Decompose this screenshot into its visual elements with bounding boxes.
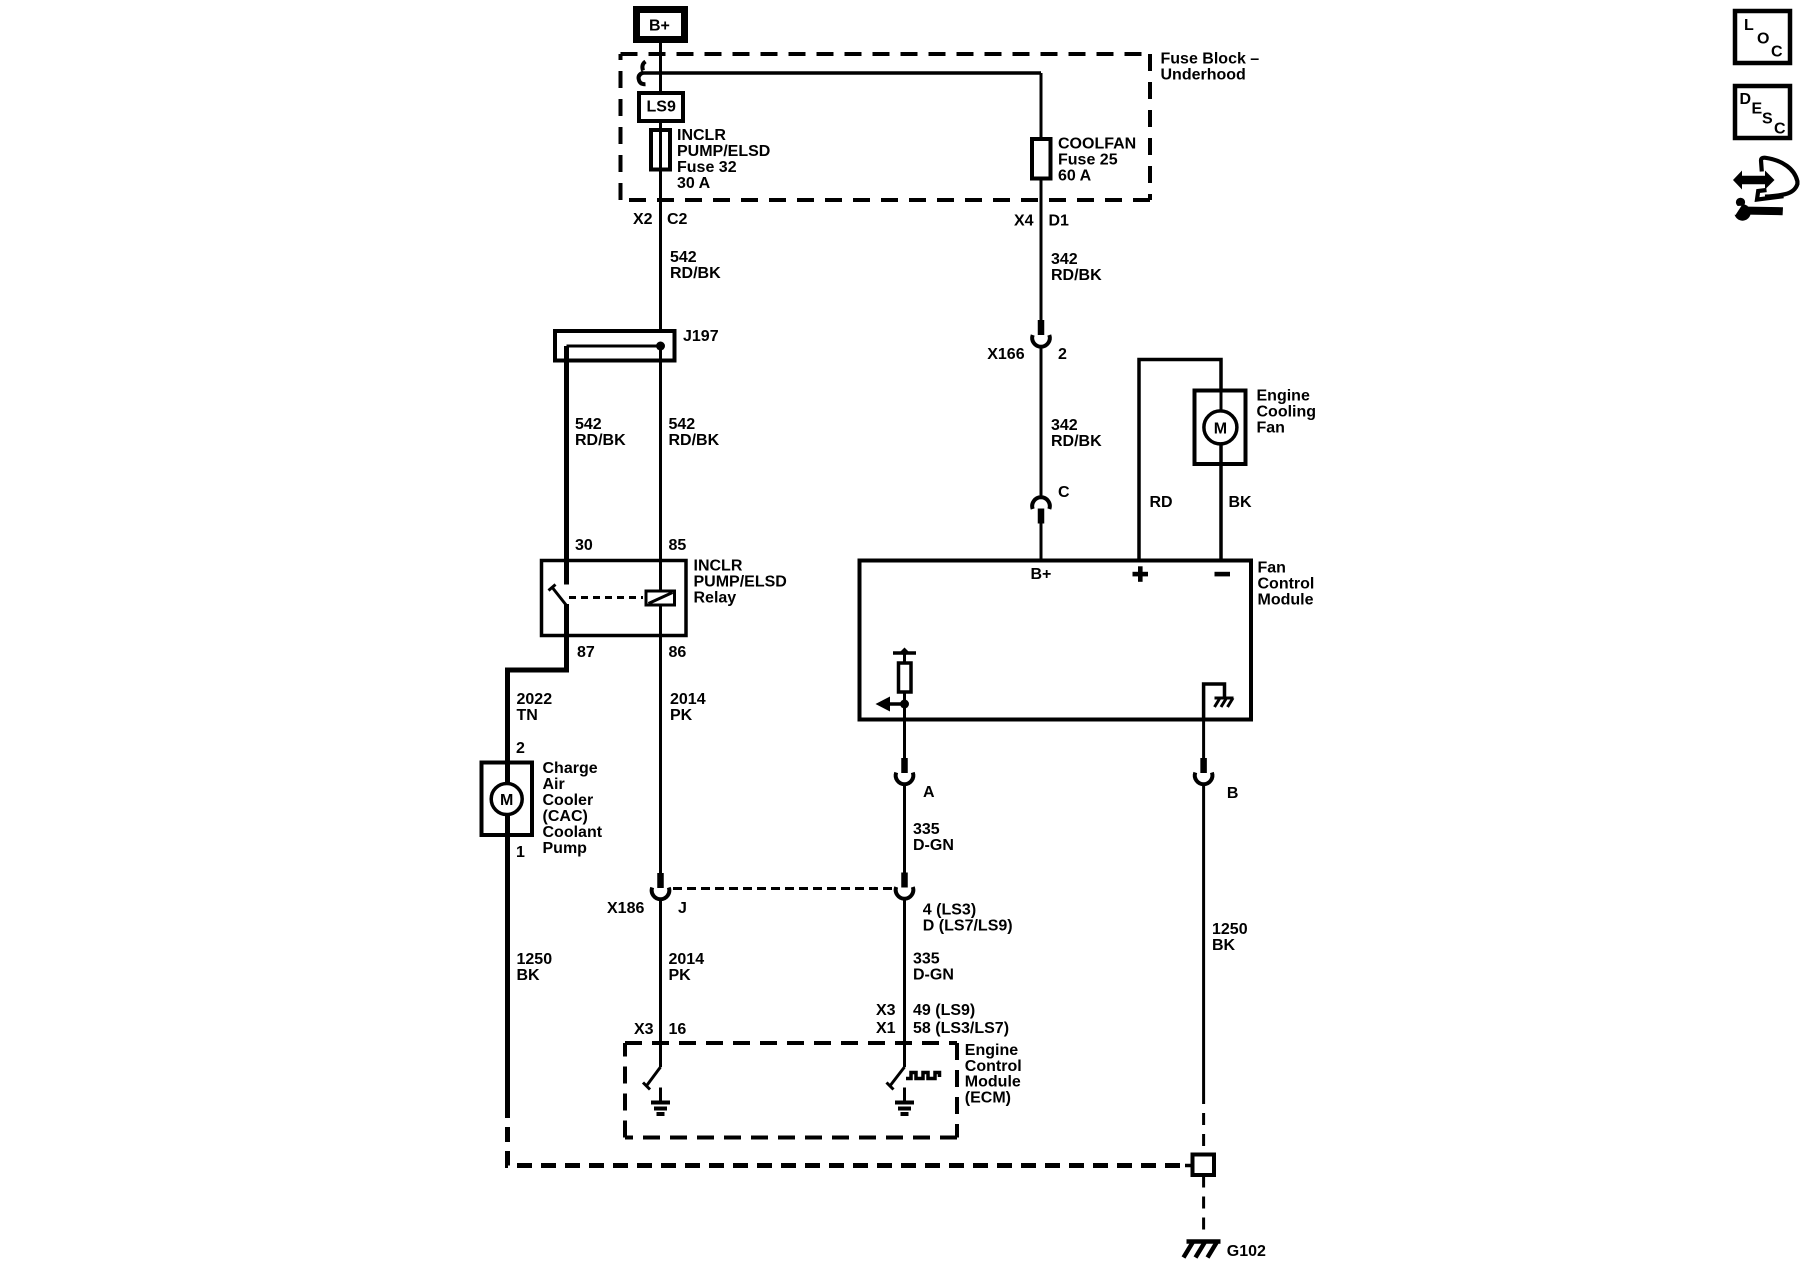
svg-text:Engine: Engine [1257,388,1310,405]
svg-text:Cooling: Cooling [1257,404,1317,421]
wrench [1734,204,1750,220]
svg-text:2: 2 [516,740,525,757]
svg-text:(ECM): (ECM) [965,1090,1011,1107]
svg-text:4 (LS3): 4 (LS3) [923,902,976,919]
LS9 engine code box [639,93,683,121]
dotted connector tie line X186 [673,887,892,890]
in-line connector X186 pin J [657,873,664,888]
svg-text:M: M [500,792,513,809]
in-line connector X166 pin 2 [1038,320,1045,335]
svg-text:BK: BK [1212,937,1236,954]
svg-text:BK: BK [1229,494,1253,511]
svg-text:S: S [1762,111,1773,128]
double-arrow and wrench icon [1733,171,1775,190]
svg-text:Fuse 25: Fuse 25 [1058,152,1118,169]
svg-text:Air: Air [543,776,565,793]
svg-text:C: C [1771,44,1783,61]
splice curl inside fuse block [642,62,645,71]
relay coil [646,591,675,605]
svg-text:87: 87 [577,644,595,661]
svg-text:Underhood: Underhood [1161,67,1246,84]
svg-text:Relay: Relay [694,590,737,607]
svg-text:J: J [678,900,687,917]
connector A below module [903,722,906,759]
svg-text:Module: Module [1258,592,1314,609]
in-line connector C at fan control module [1032,497,1050,509]
dashed wire square to G102 [1202,1176,1205,1239]
Engine Control Module (ECM) dashed box [625,1041,957,1045]
wire horizontal branch to COOLFAN fuse [641,71,1041,75]
svg-text:PK: PK [669,967,692,984]
svg-text:1: 1 [516,844,525,861]
svg-text:542: 542 [575,416,602,433]
wire B+ to fuse block [659,43,662,91]
wire J197 through to relay 85 [659,346,662,560]
svg-text:D-GN: D-GN [913,967,954,984]
wire BK: fan to module - [1219,444,1223,560]
relay switch arm [564,560,569,585]
svg-text:B: B [1227,785,1239,802]
svg-text:A: A [923,784,935,801]
relay actuator dashed link [569,596,643,599]
connector B below module [1202,722,1205,759]
svg-text:TN: TN [517,707,538,724]
svg-text:C: C [1774,121,1786,138]
svg-text:1250: 1250 [1212,921,1248,938]
svg-text:PUMP/ELSD: PUMP/ELSD [677,143,770,160]
Fuse Block - Underhood dashed boundary [621,52,1151,56]
LOC reference box [1735,11,1790,63]
svg-text:BK: BK [517,967,541,984]
svg-text:342: 342 [1051,251,1078,268]
svg-text:2014: 2014 [669,951,705,968]
module internal driver: supply bar with diamond [893,651,916,655]
module terminal label - [1215,572,1231,577]
wire down to ECM 49/58 [903,898,906,1067]
in-line connector 4(LS3)/D(LS7/LS9) [901,873,908,888]
wire C to module B+ [1040,523,1043,560]
svg-text:542: 542 [669,416,696,433]
Charge Air Cooler (CAC) Coolant Pump motor [482,763,533,836]
svg-text:342: 342 [1051,417,1078,434]
relay INCLR PUMP/ELSD Relay box [542,561,687,636]
svg-text:1250: 1250 [517,951,553,968]
svg-text:RD/BK: RD/BK [575,432,626,449]
svg-text:Control: Control [1258,576,1315,593]
wire fuse32 to J197 [659,210,662,331]
svg-text:335: 335 [913,951,940,968]
svg-text:D-GN: D-GN [913,837,954,854]
svg-text:Engine: Engine [965,1042,1018,1059]
heavy dashed ground wire to splice block [508,1103,1186,1166]
svg-text:L: L [1744,17,1754,34]
svg-text:B+: B+ [1031,566,1052,583]
battery B+ symbol [637,10,685,40]
svg-text:Charge: Charge [543,760,598,777]
svg-text:G102: G102 [1227,1243,1266,1260]
wire pump to ground path (heavy) [505,837,510,1103]
svg-text:INCLR: INCLR [677,127,726,144]
svg-text:D: D [1740,91,1752,108]
PWM square wave symbol [906,1073,940,1079]
svg-text:COOLFAN: COOLFAN [1058,136,1136,153]
wire LS9 to fuse 32 [659,121,662,210]
splice J197 [555,331,675,361]
wire X186-J down to ECM X3-16 [659,899,662,1068]
svg-text:X2: X2 [633,211,653,228]
ECM right switch with PWM [890,1067,905,1087]
svg-text:RD/BK: RD/BK [669,432,720,449]
svg-text:M: M [1214,421,1227,438]
wire down to COOLFAN fuse [1040,73,1043,137]
module internal junction dot [900,700,909,709]
dashed wire B to splice square [1202,1092,1205,1152]
ECM left ground [659,1088,662,1102]
svg-text:Module: Module [965,1074,1021,1091]
ECM right ground [903,1088,906,1102]
svg-text:Fan: Fan [1258,560,1286,577]
wire relay 87 to pump (heavy, jog left) [508,636,567,762]
svg-text:E: E [1752,101,1763,118]
module terminal label + [1133,572,1149,577]
svg-text:Fan: Fan [1257,420,1285,437]
svg-text:86: 86 [669,644,687,661]
svg-text:2: 2 [1058,346,1067,363]
svg-text:J197: J197 [683,328,719,345]
svg-text:X186: X186 [607,900,644,917]
svg-text:C2: C2 [667,211,688,228]
svg-text:X166: X166 [987,346,1024,363]
module internal chassis ground [1215,697,1234,700]
svg-text:60 A: 60 A [1058,168,1092,185]
ECM left switch to ground [646,1067,661,1087]
svg-text:58 (LS3/LS7): 58 (LS3/LS7) [913,1020,1009,1037]
svg-text:PK: PK [670,707,693,724]
wire RD: module + up and over to fan [1139,360,1221,561]
svg-text:X3: X3 [876,1002,896,1019]
wire RD into fan box [1220,392,1223,411]
module internal ground elbow [1204,684,1225,721]
svg-text:INCLR: INCLR [694,558,743,575]
svg-text:542: 542 [670,249,697,266]
svg-text:30: 30 [575,537,593,554]
svg-text:Pump: Pump [543,840,588,857]
Fan Control Module box [860,561,1252,720]
svg-text:D1: D1 [1049,213,1070,230]
module internal resistor [899,663,912,692]
fuse INCLR PUMP/ELSD Fuse 32 30 A [651,130,670,170]
DESC reference box [1735,86,1790,138]
svg-text:16: 16 [669,1021,687,1038]
svg-text:C: C [1058,484,1070,501]
svg-text:O: O [1757,31,1769,48]
Engine Cooling Fan motor [1195,391,1246,465]
splice square junction [1185,1164,1192,1168]
node junction at 660.5,73 (wire continues down) [659,73,662,91]
svg-text:(CAC): (CAC) [543,808,588,825]
svg-text:Coolant: Coolant [543,824,603,841]
svg-text:Control: Control [965,1058,1022,1075]
svg-text:LS9: LS9 [647,99,676,116]
svg-text:335: 335 [913,821,940,838]
wire B down from module [1202,784,1205,1093]
COOLFAN Fuse 25 60 A [1032,139,1051,179]
svg-text:2014: 2014 [670,691,706,708]
svg-text:85: 85 [669,537,687,554]
ground G102 symbol [1187,1239,1221,1244]
svg-text:2022: 2022 [517,691,553,708]
svg-text:RD/BK: RD/BK [670,265,721,282]
svg-text:X3: X3 [634,1021,654,1038]
module internal arrow (output) [888,702,905,706]
wire J197 left branch down to relay 30 [564,346,569,560]
svg-text:B+: B+ [649,18,670,35]
wire X166 to C connector [1040,346,1043,497]
svg-text:RD/BK: RD/BK [1051,267,1102,284]
wire COOLFAN fuse down through X4/D1 [1040,178,1043,320]
svg-text:RD/BK: RD/BK [1051,433,1102,450]
svg-text:49 (LS9): 49 (LS9) [913,1002,975,1019]
svg-text:Fuse 32: Fuse 32 [677,159,737,176]
svg-text:PUMP/ELSD: PUMP/ELSD [694,574,787,591]
wire 85 through coil to 86 [659,560,662,591]
svg-text:RD: RD [1150,494,1173,511]
svg-text:X1: X1 [876,1020,896,1037]
svg-text:Cooler: Cooler [543,792,594,809]
svg-text:Fuse Block –: Fuse Block – [1161,51,1260,68]
svg-text:30 A: 30 A [677,175,711,192]
wire relay 86 down to X186 [659,636,662,873]
svg-text:X4: X4 [1014,213,1034,230]
svg-text:D (LS7/LS9): D (LS7/LS9) [923,918,1013,935]
wire A down to ECM connector [903,784,906,873]
